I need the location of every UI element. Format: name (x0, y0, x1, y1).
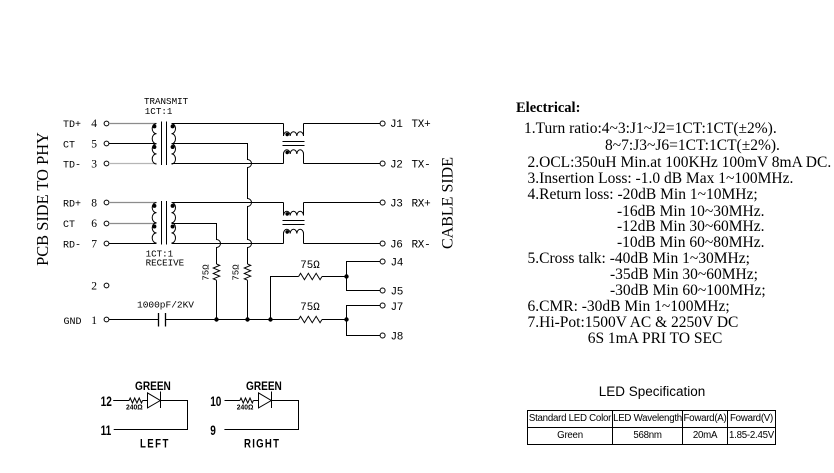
pin J1 TX+ (380, 119, 430, 131)
LED specification table title (577, 384, 727, 399)
label TRANSMIT 1CT:1 (144, 96, 189, 117)
svg-text:TD+: TD+ (63, 120, 81, 131)
svg-text:CT: CT (63, 220, 75, 231)
junction J7/J8 node (344, 317, 348, 321)
electrical spec text block (516, 121, 831, 347)
pin 4 (91, 118, 109, 130)
svg-text:75Ω: 75Ω (232, 264, 242, 281)
pin 12 (101, 393, 112, 409)
wire pin 3 to T1 primary bottom (109, 163, 157, 165)
wire R2 to ground bus (247, 280, 249, 319)
resistor R2 75 ohm (TX CT termination) (232, 264, 251, 281)
svg-text:1: 1 (91, 315, 97, 327)
wire R6 to LED D2 (253, 400, 258, 402)
pin 2 (n.c.) (91, 281, 109, 293)
svg-text:CABLE SIDE: CABLE SIDE (440, 157, 457, 249)
svg-text:3: 3 (91, 159, 97, 171)
pin J4 (380, 258, 404, 270)
svg-text:240Ω: 240Ω (237, 403, 254, 411)
pin 6 (91, 218, 109, 230)
label CT (pin 6) (63, 220, 75, 231)
pin J8 (380, 332, 403, 344)
svg-text:J8: J8 (391, 332, 404, 344)
pin 10 (210, 393, 221, 409)
common-mode choke L1 (283, 124, 305, 164)
junction J4/J5 node (344, 274, 348, 278)
wire R5 to LED D1 (143, 400, 148, 402)
svg-text:75Ω: 75Ω (202, 264, 212, 281)
svg-text:J7: J7 (391, 302, 404, 314)
pin 1 GND (91, 315, 109, 327)
svg-text:75Ω: 75Ω (300, 260, 320, 272)
label GREEN (left LED) (135, 380, 171, 393)
svg-text:8: 8 (91, 198, 97, 210)
wire choke L2 to J6 (304, 243, 381, 245)
svg-text:5: 5 (91, 139, 97, 151)
wire T1 secondary top to choke L1 (172, 123, 284, 125)
label GND (64, 317, 82, 328)
resistor R1 75 ohm (RX CT termination) (202, 264, 220, 281)
svg-text:J6: J6 (390, 240, 403, 252)
svg-text:RX+: RX+ (412, 199, 431, 211)
LED D2 GREEN (259, 392, 272, 409)
transformer T1 TRANSMIT (152, 122, 175, 166)
wire pin 10 to R6 (225, 400, 240, 402)
wire choke L2 to J3 (304, 202, 381, 204)
wire riser from bus to R3 row (271, 277, 299, 320)
pin J3 RX+ (380, 199, 430, 211)
wire T1 secondary CT down to R2 (hops over 3 wires) (172, 144, 252, 265)
svg-text:J3: J3 (390, 199, 403, 211)
resistor R3 75 ohm (upper horizontal) (299, 260, 322, 280)
wire T2 secondary bottom to choke L2 (172, 243, 284, 245)
wire T1 secondary bottom to choke L1 (172, 163, 284, 165)
svg-text:6: 6 (91, 218, 97, 230)
label 1000pF/2KV (137, 300, 194, 311)
label 1CT:1 RECEIVE (146, 249, 185, 269)
svg-text:J5: J5 (391, 287, 404, 299)
wire choke L1 to J2 (304, 163, 381, 165)
pin J7 (380, 302, 403, 314)
wire R3 to J4/J5 junction (322, 276, 347, 278)
resistor R6 240 ohm (237, 398, 254, 412)
pin J6 RX- (380, 240, 430, 252)
wire D2 loop to pin 9 (224, 401, 298, 430)
wire pin 5 to T1 primary CT (109, 143, 157, 145)
LED D1 GREEN (148, 392, 161, 409)
label RD+ (63, 199, 81, 210)
wire T2 secondary top to choke L2 (172, 202, 284, 204)
svg-text:J1: J1 (390, 119, 403, 131)
svg-text:4: 4 (91, 118, 97, 130)
svg-text:RX-: RX- (412, 240, 431, 252)
wire J4/J5 branch (347, 262, 381, 291)
svg-text:GND: GND (64, 317, 82, 328)
svg-text:9: 9 (210, 423, 216, 439)
wire D1 loop to pin 11 (114, 401, 188, 430)
svg-text:TD-: TD- (63, 160, 81, 171)
svg-text:RD-: RD- (63, 240, 81, 251)
wire pin 7 to T2 primary bottom (109, 243, 157, 245)
svg-text:11: 11 (101, 423, 112, 439)
label RD- (63, 240, 81, 251)
pin 7 (91, 239, 109, 251)
junction R1/bus (214, 317, 218, 321)
pin 8 (91, 198, 109, 210)
wire pin 4 to T1 primary top (109, 123, 157, 125)
svg-text:12: 12 (101, 393, 112, 409)
svg-text:CT: CT (63, 140, 75, 151)
pin 9 (210, 423, 216, 439)
pin J2 TX- (380, 160, 430, 172)
resistor R4 75 ohm (in ground bus) (299, 302, 322, 323)
label LEFT (140, 438, 170, 451)
label CABLE SIDE (440, 157, 457, 249)
wire J7/J8 branch (347, 306, 381, 336)
wire R4 to J7/J8 junction (322, 319, 347, 321)
label GREEN (right LED) (246, 380, 282, 393)
svg-text:LEFT: LEFT (140, 438, 170, 451)
svg-text:7: 7 (91, 239, 97, 251)
pin 3 (91, 159, 109, 171)
svg-text:TX-: TX- (412, 160, 431, 172)
pin J5 (380, 287, 403, 299)
wire pin 12 to R5 (113, 400, 129, 402)
svg-text:TX+: TX+ (412, 119, 431, 131)
svg-text:10: 10 (210, 393, 221, 409)
transformer T2 RECEIVE (152, 201, 175, 245)
pin 5 (91, 139, 109, 151)
svg-text:RIGHT: RIGHT (244, 438, 280, 451)
wire T2 secondary CT down to R1 (hop over J6 wire) (172, 224, 221, 265)
svg-text:J4: J4 (391, 258, 404, 270)
svg-text:J2: J2 (390, 160, 403, 172)
wire pin 8 to T2 primary top (109, 202, 157, 204)
label TD- (63, 160, 81, 171)
svg-text:240Ω: 240Ω (126, 403, 143, 411)
label PCB SIDE TO PHY (33, 132, 52, 266)
svg-text:GREEN: GREEN (135, 380, 171, 393)
wire pin 1 to capacitor C1 (109, 319, 158, 321)
junction bus/riser (268, 317, 272, 321)
svg-text:75Ω: 75Ω (300, 302, 320, 314)
capacitor C1 plates (159, 313, 166, 327)
svg-text:1000pF/2KV: 1000pF/2KV (137, 300, 194, 311)
label CT (pin 5) (63, 140, 75, 151)
svg-text:RECEIVE: RECEIVE (146, 258, 185, 269)
svg-text:2: 2 (91, 281, 97, 293)
common-mode choke L2 (283, 203, 305, 244)
label TD+ (63, 120, 81, 131)
pin 11 (101, 423, 112, 439)
svg-text:1CT:1: 1CT:1 (145, 106, 173, 117)
LED specification table (527, 410, 776, 445)
svg-text:GREEN: GREEN (246, 380, 282, 393)
ground bus wire C1 to R4 (166, 319, 299, 321)
resistor R5 240 ohm (126, 398, 143, 412)
electrical spec heading (516, 100, 580, 116)
svg-text:PCB SIDE TO PHY: PCB SIDE TO PHY (33, 132, 52, 266)
label RIGHT (244, 438, 280, 451)
svg-text:RD+: RD+ (63, 199, 81, 210)
wire choke L1 to J1 (304, 123, 381, 125)
wire pin 6 to T2 primary CT (109, 223, 157, 225)
junction R2/bus (245, 317, 249, 321)
wire R1 to ground bus (216, 280, 218, 319)
